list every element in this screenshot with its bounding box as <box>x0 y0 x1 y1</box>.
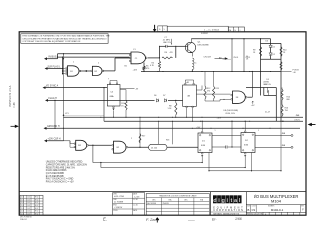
svg-text:D6: D6 <box>154 95 156 97</box>
svg-text:750: 750 <box>285 110 288 112</box>
svg-text:R 62: R 62 <box>35 208 38 210</box>
svg-text:B: B <box>247 208 249 212</box>
svg-text:d: d <box>213 198 217 204</box>
svg-text:CN 01: CN 01 <box>233 57 238 59</box>
svg-text:D2: D2 <box>273 54 275 56</box>
svg-text:2: 2 <box>98 63 99 65</box>
svg-text:1-31: 1-31 <box>27 199 30 201</box>
svg-text:C 41: C 41 <box>21 205 24 207</box>
svg-text:D3: D3 <box>266 41 268 43</box>
svg-text:CS: CS <box>252 209 256 212</box>
svg-text:2L-17: 2L-17 <box>265 112 271 114</box>
svg-text:GROUND H: GROUND H <box>47 126 60 128</box>
svg-text:——: —— <box>188 218 195 222</box>
svg-text:DL 100: DL 100 <box>151 148 157 150</box>
svg-text:MAYNARD. MASSACHUSETTS: MAYNARD. MASSACHUSETTS <box>213 213 240 216</box>
svg-text:PIN 14 ON EACH IC = +3V: PIN 14 ON EACH IC = +3V <box>46 181 74 184</box>
svg-text:1: 1 <box>73 62 74 64</box>
svg-text:1/66: 1/66 <box>235 217 242 221</box>
svg-text:(OUT): (OUT) <box>295 120 301 122</box>
svg-text:1 — 0 + 0 M104: 1 — 0 + 0 M104 <box>204 29 220 31</box>
svg-text:R 62: R 62 <box>35 213 38 215</box>
svg-text:1-31: 1-31 <box>27 211 30 213</box>
svg-text:470: 470 <box>146 68 149 70</box>
svg-text:DRA 102: DRA 102 <box>20 218 27 221</box>
svg-text:C 41: C 41 <box>21 202 24 204</box>
svg-text:C 41: C 41 <box>21 197 24 199</box>
svg-text:g: g <box>221 198 225 204</box>
svg-text:CN 34T: CN 34T <box>204 57 212 59</box>
svg-text:PRINTED IN U.S.A.: PRINTED IN U.S.A. <box>9 85 12 107</box>
svg-text:RESISTORS ARE 1/4W, 5%: RESISTORS ARE 1/4W, 5% <box>46 166 75 169</box>
svg-text:M104-0-1: M104-0-1 <box>271 208 284 212</box>
svg-text:+10V: +10V <box>217 118 222 120</box>
svg-text:NUMBER: NUMBER <box>201 33 209 35</box>
svg-text:R 62: R 62 <box>35 211 38 213</box>
svg-text:REV: REV <box>301 206 304 208</box>
svg-text:680: 680 <box>287 99 290 101</box>
svg-text:1-31: 1-31 <box>27 213 30 215</box>
svg-text:1-7-66: 1-7-66 <box>133 204 138 206</box>
svg-text:FLAG H: FLAG H <box>49 97 58 100</box>
svg-text:B1: B1 <box>125 66 127 68</box>
svg-text:R16: R16 <box>285 108 288 110</box>
svg-text:R10: R10 <box>283 50 286 52</box>
svg-text:D1: D1 <box>273 47 275 49</box>
svg-text:COPYRIGHT 1966 BY DIGITAL EQUI: COPYRIGHT 1966 BY DIGITAL EQUIPMENT CORP… <box>22 40 81 43</box>
svg-text:CORPORATION: CORPORATION <box>213 209 244 212</box>
svg-text:t: t <box>230 198 232 204</box>
svg-text:CAPACITORS ARE .01 MFD, 100V,2: CAPACITORS ARE .01 MFD, 100V,20% <box>46 163 87 166</box>
svg-text:C 41: C 41 <box>21 199 24 201</box>
svg-text:PRINTED CIRCUIT REV.: PRINTED CIRCUIT REV. <box>247 214 264 216</box>
svg-text:+10V: +10V <box>133 70 138 72</box>
svg-text:UNLESS OTHERWISE INDICATED:: UNLESS OTHERWISE INDICATED: <box>46 161 84 164</box>
svg-text:Q1 IS DEC3639B: Q1 IS DEC3639B <box>46 173 64 175</box>
svg-text:R18: R18 <box>166 140 169 142</box>
svg-text:R13: R13 <box>215 88 218 90</box>
svg-text:1-31: 1-31 <box>27 197 30 199</box>
svg-text:C 41: C 41 <box>21 208 24 210</box>
svg-text:D7: D7 <box>163 95 165 97</box>
svg-text:R8: R8 <box>169 106 171 108</box>
svg-text:C 41: C 41 <box>21 211 24 213</box>
svg-text:TRANSISTOR & DIODE CONVERSION: TRANSISTOR & DIODE CONVERSION CHART <box>159 194 198 197</box>
svg-text:M104: M104 <box>271 199 282 204</box>
svg-text:THIS SCHEMATIC IS FURNISHED ON: THIS SCHEMATIC IS FURNISHED ONLY FOR TES… <box>22 35 110 38</box>
svg-text:CODE: CODE <box>252 206 256 208</box>
svg-text:1-31: 1-31 <box>27 205 30 207</box>
svg-text:67A: 67A <box>244 144 248 147</box>
svg-text:E.: E. <box>103 217 107 222</box>
svg-text:68A: 68A <box>110 95 114 98</box>
svg-text:1: 1 <box>258 130 259 132</box>
svg-text:470: 470 <box>207 91 210 93</box>
svg-text:DEC3639B: DEC3639B <box>198 44 209 46</box>
svg-text:1-31: 1-31 <box>27 208 30 210</box>
svg-text:470: 470 <box>170 52 173 54</box>
svg-text:+10V CLR H: +10V CLR H <box>48 139 61 141</box>
svg-text:E1 IS DEC6534B: E1 IS DEC6534B <box>46 176 64 178</box>
svg-text:1-7-66: 1-7-66 <box>133 199 138 201</box>
svg-text:C 41: C 41 <box>21 213 24 215</box>
svg-text:SLR FLAG L: SLR FLAG L <box>48 65 62 68</box>
svg-text:R 62: R 62 <box>35 199 38 201</box>
svg-text:R 62: R 62 <box>35 205 38 207</box>
svg-text:BEL 10%: BEL 10% <box>264 84 272 86</box>
svg-text:D8 (DEC6534B): D8 (DEC6534B) <box>224 110 239 112</box>
svg-text:+10: +10 <box>293 72 296 74</box>
svg-text:I/O SYNC A: I/O SYNC A <box>46 84 59 87</box>
svg-text:IN BUS: IN BUS <box>49 56 57 59</box>
svg-text:1-7-66: 1-7-66 <box>134 196 140 198</box>
svg-text:F. 2a—: F. 2a— <box>146 217 160 222</box>
svg-text:6534, 10%: 6534, 10% <box>226 113 236 115</box>
svg-text:PIN 7 ON EACH IC = GND: PIN 7 ON EACH IC = GND <box>46 178 74 181</box>
svg-text:1: 1 <box>215 130 216 132</box>
svg-text:J. SMITH: J. SMITH <box>114 207 123 209</box>
svg-text:R6: R6 <box>165 52 167 54</box>
svg-text:R9: R9 <box>253 50 255 52</box>
svg-text:A. TOMBE: A. TOMBE <box>113 201 124 204</box>
svg-text:2: 2 <box>131 138 132 140</box>
svg-text:M: M <box>229 30 231 32</box>
svg-text:F-66: F-66 <box>13 102 16 108</box>
svg-text:D1-D4 ARE 1N3606: D1-D4 ARE 1N3606 <box>46 169 67 172</box>
svg-text:POS B: POS B <box>293 69 300 71</box>
svg-text:R4: R4 <box>152 63 154 65</box>
svg-text:1-31: 1-31 <box>27 202 30 204</box>
svg-text:EQUIPMENT: EQUIPMENT <box>213 207 244 209</box>
svg-text:A.W. LONG: A.W. LONG <box>113 195 124 198</box>
svg-text:R17: R17 <box>142 136 145 138</box>
svg-text:R 62: R 62 <box>35 202 38 204</box>
svg-text:CIRCUITS ARE PROPRIETARY IN NA: CIRCUITS ARE PROPRIETARY IN NATURE AND S… <box>22 37 107 40</box>
svg-text:67A: 67A <box>201 144 205 147</box>
svg-text:R 62: R 62 <box>35 197 38 199</box>
svg-text:GMV 5%: GMV 5% <box>163 42 171 44</box>
